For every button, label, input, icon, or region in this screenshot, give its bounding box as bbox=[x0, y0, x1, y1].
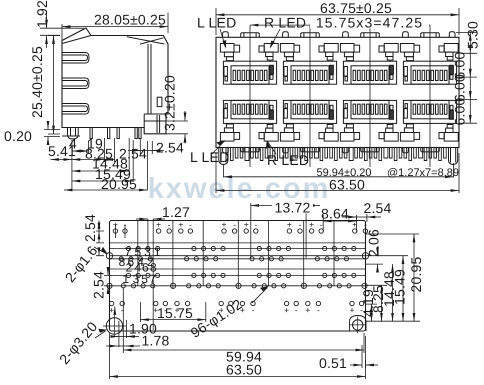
svg-text:20.95: 20.95 bbox=[101, 176, 137, 192]
svg-text:2-φ3.20: 2-φ3.20 bbox=[56, 318, 101, 367]
svg-text:25.40±0.25: 25.40±0.25 bbox=[29, 46, 45, 118]
footprint led hole ticks bbox=[115, 225, 125, 239]
footprint polarity marks jack1 bbox=[109, 220, 171, 316]
front view jacks top row bbox=[220, 32, 458, 85]
footprint pin numbers bbox=[119, 245, 161, 286]
svg-text:13.72: 13.72 bbox=[274, 200, 310, 216]
side view latch tab 2 bbox=[62, 78, 89, 89]
side view pin 3 bbox=[117, 128, 119, 139]
front view right corner dome bbox=[449, 32, 455, 38]
dimension 25.40 line bbox=[53, 36, 55, 135]
svg-text:5: 5 bbox=[141, 272, 148, 286]
jack B2 bbox=[280, 100, 338, 153]
leader 96-phi1.02 bbox=[252, 288, 268, 304]
dimension 28.05 extension lines bbox=[62, 13, 168, 43]
dimension 3.2 extension lines bbox=[166, 121, 188, 134]
side view latch tab 3 bbox=[62, 104, 89, 115]
footprint polarity marks jack4 bbox=[305, 220, 367, 316]
jack B1 bbox=[220, 100, 278, 153]
side view inner vertical panel lines bbox=[148, 44, 151, 114]
dimension 15.49 line bbox=[72, 180, 133, 182]
dimension 25.40 extension lines bbox=[48, 36, 60, 135]
svg-text:R LED: R LED bbox=[264, 15, 306, 31]
svg-text:3: 3 bbox=[133, 272, 140, 286]
dimension 5.41 line bbox=[51, 159, 72, 161]
svg-text:5.30: 5.30 bbox=[465, 21, 481, 49]
jack A3 bbox=[340, 32, 398, 85]
svg-text:20.95: 20.95 bbox=[408, 256, 424, 292]
dimension 63.75 extension lines bbox=[216, 8, 459, 35]
svg-text:96-φ1.02: 96-φ1.02 bbox=[188, 296, 246, 341]
footprint locating hole left bbox=[106, 253, 112, 259]
svg-text:6.00: 6.00 bbox=[452, 97, 468, 125]
dimension 8.25 line bbox=[72, 159, 105, 161]
side view dimensions bbox=[40, 13, 188, 191]
dimension 13.72 bbox=[251, 203, 306, 258]
side view front post bbox=[68, 128, 79, 140]
side view pin 5 bbox=[139, 128, 141, 139]
front view jacks bottom row (mirrored) bbox=[220, 100, 458, 153]
front view shield teeth bbox=[231, 148, 447, 161]
dimension 4.19 line bbox=[72, 150, 89, 152]
bottom view dimensions bbox=[94, 203, 420, 379]
text 15.75x3 bbox=[310, 18, 429, 29]
R LED leader top bbox=[271, 29, 281, 47]
side view pin 1 bbox=[90, 128, 92, 139]
side view slot bbox=[157, 97, 162, 106]
footprint outline bbox=[110, 221, 366, 332]
side view standoff line bbox=[62, 135, 80, 137]
dimension 20.95 line bbox=[64, 189, 148, 191]
footprint inner lines bbox=[110, 243, 366, 286]
side view bottom step bbox=[144, 114, 166, 128]
jack A1 bbox=[220, 32, 278, 85]
right side extension lines bbox=[456, 32, 477, 123]
R LED leader bottom bbox=[268, 142, 277, 155]
footprint locating hole right bbox=[362, 253, 368, 259]
svg-text:0.20: 0.20 bbox=[4, 128, 32, 144]
dimension 1.92 arrows bbox=[46, 13, 48, 28]
svg-text:2.06: 2.06 bbox=[366, 229, 382, 257]
footprint shield holes bbox=[107, 283, 367, 288]
dimension 0.51 bbox=[350, 364, 362, 366]
dimension 63.50 bottom bbox=[110, 333, 366, 379]
svg-text:L LED: L LED bbox=[197, 15, 236, 31]
jack A2 bbox=[280, 32, 338, 85]
side view pin 2 bbox=[108, 128, 110, 139]
dimension 63.75 line bbox=[216, 14, 459, 16]
dimension 1.90 bbox=[119, 320, 127, 347]
footprint polarity marks jack3 bbox=[240, 220, 302, 316]
front view body bbox=[216, 37, 459, 147]
front view dimensions bbox=[212, 8, 477, 193]
svg-text:8: 8 bbox=[119, 255, 126, 269]
text 13.72 bbox=[272, 203, 313, 214]
footprint mounting hole left bbox=[103, 315, 127, 338]
svg-text:1: 1 bbox=[122, 272, 129, 286]
side view pin 4 bbox=[135, 128, 137, 139]
footprint column lines bbox=[138, 221, 334, 290]
side view top chamfer line bbox=[127, 37, 165, 44]
dimension 14.48 line bbox=[72, 170, 129, 172]
svg-text:1.78: 1.78 bbox=[141, 333, 169, 349]
side view latch tab 1 bbox=[62, 53, 89, 64]
svg-text:1.92: 1.92 bbox=[34, 0, 50, 28]
svg-text:L LED: L LED bbox=[190, 149, 229, 165]
footprint pin holes jack3 bbox=[240, 229, 302, 306]
svg-text:15.49: 15.49 bbox=[392, 269, 408, 305]
dimension 2.54 top right bbox=[366, 214, 368, 222]
svg-text:63.50: 63.50 bbox=[226, 362, 262, 378]
front view right bottom LED lens bbox=[449, 148, 458, 165]
right side dim arrows bbox=[469, 32, 471, 53]
svg-text:2.54: 2.54 bbox=[363, 200, 391, 216]
svg-text:R LED: R LED bbox=[267, 152, 309, 168]
svg-text:2.54: 2.54 bbox=[91, 271, 107, 299]
svg-text:2.54: 2.54 bbox=[156, 140, 184, 156]
svg-text:@1.27x7=8.89: @1.27x7=8.89 bbox=[387, 167, 459, 179]
dimension 15.75 bottom bbox=[140, 302, 205, 322]
svg-text:4: 4 bbox=[69, 136, 77, 152]
bottom extension lines bbox=[72, 138, 152, 191]
footprint pin holes jack4 bbox=[306, 229, 368, 306]
dimension 59.94 bottom bbox=[123, 288, 364, 353]
right side dims bbox=[366, 234, 420, 321]
jack B4 bbox=[400, 100, 458, 153]
svg-text:1: 1 bbox=[154, 245, 161, 259]
leader 2-phi3.20 bbox=[95, 331, 106, 338]
footprint polarity marks jack2 bbox=[175, 220, 237, 316]
svg-text:2.54: 2.54 bbox=[82, 214, 98, 242]
svg-text:1.27: 1.27 bbox=[162, 204, 190, 220]
svg-text:8.64: 8.64 bbox=[321, 206, 349, 222]
front view centerlines bbox=[250, 25, 430, 167]
svg-text:15.75x3=47.25: 15.75x3=47.25 bbox=[316, 15, 423, 31]
dimension 47.25 line bbox=[250, 24, 430, 26]
L LED leader bottom bbox=[212, 142, 224, 155]
dimension 8.64 bbox=[323, 215, 356, 232]
svg-text:3.2±0.20: 3.2±0.20 bbox=[162, 75, 178, 131]
footprint pin holes jack1 bbox=[109, 229, 171, 306]
dimension 2.06 bbox=[377, 247, 379, 256]
L LED leader top bbox=[220, 29, 226, 47]
svg-text:28.05±0.25: 28.05±0.25 bbox=[94, 12, 166, 28]
dimension 0.20 arrows bbox=[44, 130, 60, 137]
side view foot bbox=[157, 115, 160, 133]
front view left bottom LED lens bbox=[219, 148, 228, 165]
dimension 1.78 bbox=[106, 345, 118, 347]
jack A4 bbox=[400, 32, 458, 85]
bottom dimension 63.50 line bbox=[216, 153, 459, 193]
left 2.54 dims bbox=[96, 231, 104, 256]
dimension 2.54b arrows bbox=[128, 150, 140, 152]
dimension 3.2 arrows bbox=[184, 111, 186, 121]
dimension 1.92 extension lines bbox=[40, 28, 84, 35]
dimension 28.05 line bbox=[62, 26, 168, 28]
footprint pin holes jack2 bbox=[175, 229, 237, 306]
svg-text:0.51: 0.51 bbox=[319, 355, 347, 371]
side view body outline bbox=[62, 28, 168, 134]
dimension 1.27 bbox=[148, 219, 153, 330]
svg-text:15.75: 15.75 bbox=[157, 305, 193, 321]
bottom dimension 59.94 line bbox=[224, 163, 454, 178]
jack B3 bbox=[340, 100, 398, 153]
svg-text:63.50: 63.50 bbox=[329, 177, 365, 193]
footprint mounting hole right bbox=[349, 316, 367, 334]
dimension 2.54a arrows bbox=[105, 159, 115, 161]
leader 2-phi1.6 bbox=[94, 247, 106, 254]
